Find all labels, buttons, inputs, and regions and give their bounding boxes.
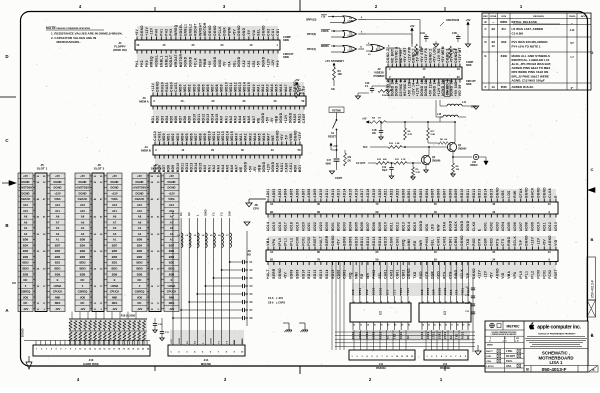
svg-text:RXD2: RXD2 [422,331,424,339]
svg-text:LDMA: LDMA [168,284,176,288]
svg-text:17: 17 [451,324,453,326]
svg-text:MEM B: MEM B [141,148,151,152]
svg-text:GND: GND [242,338,244,344]
svg-text:CAS0: CAS0 [153,131,157,141]
ground triangle right of J12 [475,351,481,355]
svg-text:SPARE: SPARE [447,85,450,95]
svg-text:IPL1: IPL1 [284,238,288,246]
svg-text:BD07: BD07 [366,222,370,231]
svg-text:VIDEO: VIDEO [470,164,478,167]
svg-text:-12V: -12V [137,307,143,311]
svg-text:AD13: AD13 [337,188,341,197]
svg-text:Y2: Y2 [220,212,224,216]
svg-text:BD03: BD03 [343,222,347,231]
svg-text:BD05: BD05 [354,222,358,231]
svg-text:CONT: CONT [335,177,343,180]
svg-text:DGND: DGND [184,56,188,67]
svg-text:15: 15 [439,324,441,326]
svg-text:A13: A13 [169,203,174,207]
svg-text:CB1: CB1 [276,28,280,35]
svg-text:CBACK: CBACK [78,197,88,201]
svg-text:DGND: DGND [460,235,464,246]
svg-text:BD8: BD8 [137,272,143,276]
svg-text:AD07: AD07 [301,188,305,197]
svg-text:DCD1: DCD1 [381,287,383,295]
svg-text:+12V: +12V [298,131,302,140]
svg-text:CTS: CTS [394,289,396,295]
svg-text:+5V: +5V [294,78,299,82]
svg-text:LISA: LISA [506,365,512,368]
svg-text:MD8: MD8 [167,165,171,173]
svg-text:A5: A5 [56,226,60,230]
svg-text:DGND: DGND [262,56,266,67]
svg-text:VIA: VIA [227,61,231,68]
svg-text:MA6: MA6 [279,84,283,92]
svg-text:+5VSTDBY: +5VSTDBY [19,186,33,190]
svg-text:NC: NC [138,301,142,305]
label CV OUT and resistor R12 680 [356,159,389,165]
svg-text:D: D [5,54,8,59]
svg-text:AGND: AGND [495,268,499,279]
svg-text:AD05: AD05 [507,222,511,231]
svg-text:DGND: DGND [293,81,297,92]
svg-text:PH0: PH0 [276,60,280,67]
svg-text:A9: A9 [113,215,117,219]
svg-text:RS232A: RS232A [376,366,386,370]
svg-text:TXD: TXD [413,271,417,279]
svg-text:J11: J11 [379,362,384,366]
svg-text:GN: GN [348,157,352,159]
svg-text:RD: RD [413,240,417,246]
svg-text:C8-9: C8-9 [268,302,274,305]
svg-text:DGND: DGND [331,235,335,246]
svg-text:BD3: BD3 [169,255,175,259]
svg-text:CB02: CB02 [401,269,405,278]
svg-text:5: 5 [56,349,57,351]
svg-text:ENBL2: ENBL2 [164,55,168,67]
svg-text:MOTOR: MOTOR [179,54,183,68]
svg-text:MD7: MD7 [194,133,198,141]
svg-text:A7: A7 [56,220,60,224]
svg-text:IPL2: IPL2 [290,238,294,246]
svg-text:CA02: CA02 [390,269,394,278]
svg-text:E: E [478,229,482,231]
boxed label SPARE below power connector [445,81,451,97]
svg-text:VMA: VMA [266,237,270,245]
svg-text:SEL: SEL [431,239,435,246]
svg-text:MA3: MA3 [265,84,269,92]
svg-text:A10: A10 [80,209,85,213]
svg-text:+5V: +5V [248,165,252,172]
svg-text:-12V: -12V [112,307,118,311]
svg-text:12: 12 [422,324,424,326]
svg-text:9: 9 [463,301,464,303]
svg-text:RS232B: RS232B [440,366,450,370]
svg-text:DTR2: DTR2 [360,331,362,339]
connector J2 VIDEO POWER [374,46,463,96]
svg-text:POWER: POWER [374,74,386,78]
svg-text:+5V: +5V [169,174,174,178]
svg-text:A9: A9 [56,215,60,219]
transistor Q2 2N3906 [421,146,441,165]
connector J11 RS232A [349,350,415,370]
svg-text:BD00: BD00 [401,188,405,197]
svg-text:BD5: BD5 [55,249,61,253]
svg-text:FC02: FC02 [307,237,311,246]
svg-text:VIDA: VIDA [111,197,117,201]
svg-text:CPUCK: CPUCK [110,290,120,294]
svg-text:MD1: MD1 [151,116,155,124]
svg-text:LDMA: LDMA [54,284,62,288]
svg-text:A10: A10 [23,209,28,213]
svg-text:8: 8 [457,301,458,303]
svg-text:846B: 846B [501,54,507,58]
svg-text:I/O8: I/O8 [23,295,29,299]
svg-text:+12V: +12V [266,163,270,172]
svg-text:MEM A: MEM A [139,99,149,103]
svg-text:RTS1: RTS1 [445,331,447,339]
svg-text:+12V: +12V [111,191,118,195]
svg-text:3.3K: 3.3K [453,52,458,54]
svg-text:DGND: DGND [262,161,266,172]
svg-text:SLOT 1: SLOT 1 [37,167,48,171]
svg-text:+5V: +5V [409,24,414,28]
drawing number row 050-4013-F [524,366,598,374]
svg-text:E: E [554,195,558,197]
svg-text:PH02: PH02 [372,270,376,279]
svg-text:DTR1: DTR1 [428,287,430,295]
svg-text:21: 21 [132,349,134,351]
svg-text:DCD: DCD [437,271,441,279]
svg-text:DGND: DGND [460,220,464,231]
svg-text:VPA: VPA [272,238,276,246]
svg-text:AD08: AD08 [525,222,529,231]
svg-text:L: L [195,214,199,216]
svg-text:ZONE: ZONE [490,16,497,18]
svg-text:IPL2: IPL2 [531,271,535,279]
svg-text:BD2: BD2 [137,249,143,253]
svg-text:7: 7 [388,301,389,303]
svg-text:CTS: CTS [501,238,505,245]
cap C1B and R5 right of J1 [449,18,471,58]
svg-text:RES: RES [112,301,118,305]
svg-text:A11: A11 [55,209,60,213]
svg-text:RXD1: RXD1 [462,331,464,339]
svg-text:BDI0: BDI0 [79,266,86,270]
svg-text:Y10: Y10 [321,16,326,19]
svg-text:-5V: -5V [247,29,251,35]
svg-text:CB1: CB1 [252,60,256,67]
svg-text:DTR2: DTR2 [428,331,430,339]
svg-text:BD8: BD8 [80,272,86,276]
svg-text:MD0: MD0 [294,165,298,173]
svg-text:2N3906: 2N3906 [432,159,441,162]
svg-text:BD4: BD4 [137,243,143,247]
svg-text:C: C [591,167,594,172]
connector J8 CPU [253,187,558,232]
svg-text:+5V: +5V [265,116,269,123]
ground triangle right of L11 [470,106,479,109]
svg-text:VBB: VBB [275,115,279,123]
svg-text:BD12: BD12 [472,188,476,197]
IC U3 serial driver [419,287,471,339]
svg-text:A6: A6 [138,220,142,224]
svg-text:18: 18 [118,349,120,351]
svg-text:-5V: -5V [223,61,227,67]
svg-text:S132: S132 [376,49,382,52]
svg-text:AD02: AD02 [489,222,493,231]
svg-text:B: B [591,237,594,242]
svg-text:13: 13 [94,349,96,351]
svg-text:FC00: FC00 [536,270,540,279]
svg-text:CAS0: CAS0 [285,163,289,173]
svg-text:NC: NC [81,278,85,282]
svg-text:R/W: R/W [513,191,517,198]
apple computer inc logo text [529,322,581,330]
svg-text:+5V: +5V [465,18,470,22]
svg-text:RSET: RSET [313,236,317,246]
svg-text:AD06: AD06 [513,222,517,231]
svg-text:AD10: AD10 [319,188,323,197]
svg-text:WREQ: WREQ [174,24,178,35]
svg-text:N.O: N.O [363,146,368,149]
svg-text:2: 2 [422,301,423,303]
svg-text:DTR1: DTR1 [360,287,362,295]
svg-text:DGND: DGND [278,268,282,279]
svg-text:AD12: AD12 [331,188,335,197]
svg-text:PWM: PWM [227,27,231,36]
svg-text:CA1: CA1 [271,28,275,35]
svg-text:+5V: +5V [257,60,261,67]
svg-text:MD3: MD3 [176,133,180,141]
svg-text:A12: A12 [80,203,85,207]
svg-text:MA7: MA7 [284,84,288,92]
svg-text:MD9: MD9 [220,84,224,92]
svg-text:PH2: PH2 [164,29,168,36]
svg-text:AD03: AD03 [495,222,499,231]
svg-text:PH3: PH3 [169,29,173,36]
svg-text:BD4: BD4 [80,243,86,247]
capacitor C17 6800 [326,159,340,170]
svg-text:8: 8 [70,349,71,351]
svg-text:AD07: AD07 [519,222,523,231]
svg-text:PH1: PH1 [159,29,163,36]
svg-text:+12V: +12V [266,58,270,67]
svg-text:RXD: RXD [472,238,476,246]
ground symbol 2 near mouse [299,323,308,332]
svg-text:6: 6 [445,301,446,303]
svg-text:RTS: RTS [442,271,446,278]
svg-text:B3: B3 [492,40,496,44]
svg-text:A1: A1 [113,238,117,242]
svg-text:NC: NC [24,278,28,282]
title text SCHEMATIC MOTHERBOARD LISA 1 [524,349,588,366]
svg-text:RSTSW: RSTSW [332,109,341,112]
tolerance table left part of title block [485,332,524,372]
svg-text:BD2: BD2 [23,249,29,253]
svg-text:2RPU(2): 2RPU(2) [306,18,317,22]
svg-text:MICROFARADS..: MICROFARADS.. [57,40,82,44]
svg-text:AD09: AD09 [313,188,317,197]
svg-text:BD14: BD14 [325,269,329,278]
svg-text:VID 36: VID 36 [458,84,462,96]
svg-text:TIP: TIP [519,240,523,246]
svg-text:2: 2 [353,301,354,303]
svg-text:± .25: ± .25 [515,340,519,342]
svg-text:FC00: FC00 [295,237,299,246]
svg-text:AD16: AD16 [354,188,358,197]
svg-text:CV OUT: CV OUT [356,162,366,165]
svg-text:15: 15 [103,349,105,351]
ground symbol 1 near mouse [283,323,292,332]
svg-text:A13: A13 [55,203,60,207]
svg-text:MD1: MD1 [183,84,187,92]
svg-text:BD3: BD3 [55,255,61,259]
svg-text:BD05: BD05 [431,188,435,197]
svg-text:BD9: BD9 [112,272,118,276]
svg-text:Y1: Y1 [212,212,216,216]
svg-text:CA1: CA1 [247,60,251,67]
svg-text:ENBL1: ENBL1 [159,55,163,67]
svg-text:A1: A1 [270,250,274,254]
svg-text:VID: VID [554,239,558,246]
title block [485,321,588,372]
bus wires between serial ICs and RS232 connectors [335,330,475,350]
svg-text:DGND: DGND [244,161,248,172]
svg-text:5: 5 [374,301,375,303]
svg-text:16: 16 [380,324,382,326]
svg-text:≠ CAPS: ≠ CAPS [276,302,285,305]
svg-text:FC01: FC01 [301,237,305,246]
svg-text:BD6: BD6 [80,238,86,242]
svg-text:WRDAT: WRDAT [174,54,178,67]
svg-text:BD7: BD7 [169,243,175,247]
svg-text:8/99: 8/99 [501,40,507,44]
svg-text:RAS0: RAS0 [160,82,164,92]
svg-text:4A: 4A [492,85,495,89]
svg-text:AD23: AD23 [395,188,399,197]
svg-text:MA5: MA5 [226,165,230,173]
label ONC B7238 [440,19,460,26]
svg-text:GND: GND [179,338,181,344]
IC U2 serial driver [350,287,411,339]
svg-text:2.7K: 2.7K [416,172,421,174]
svg-text:BDI1: BDI1 [168,266,175,270]
connector J14 MOUSE [168,338,245,366]
svg-text:MD8: MD8 [183,116,187,124]
svg-text:A8: A8 [81,215,85,219]
svg-text:GND: GND [242,27,246,35]
svg-text:MD5: MD5 [201,84,205,92]
svg-text:IPL1: IPL1 [525,271,529,279]
svg-text:NMI: NMI [112,295,117,299]
svg-text:20: 20 [468,324,470,326]
svg-text:DGND: DGND [419,220,423,231]
svg-text:A4: A4 [81,226,85,230]
svg-text:NMI: NMI [354,272,358,279]
svg-text:AD10: AD10 [536,222,540,231]
svg-text:DGND: DGND [271,161,275,172]
svg-text:WE: WE [288,86,292,92]
svg-text:MA6: MA6 [262,133,266,141]
svg-text:AD21: AD21 [384,188,388,197]
svg-text:BD13: BD13 [401,222,405,231]
svg-text:+5V: +5V [362,118,367,121]
svg-text:6800: 6800 [326,163,332,166]
svg-text:19: 19 [462,324,464,326]
svg-text:+5V: +5V [171,210,175,216]
svg-text:MD9: MD9 [203,133,207,141]
svg-text:MD6: MD6 [189,133,193,141]
svg-text:BD0: BD0 [80,255,86,259]
svg-text:SIDE: SIDE [283,38,289,42]
svg-text:LS32: LS32 [348,50,354,53]
svg-text:-12V: -12V [150,27,154,36]
svg-text:DGND: DGND [466,220,470,231]
svg-text:A2: A2 [138,232,142,236]
svg-text:-12V: -12V [55,307,61,311]
svg-text:MD13: MD13 [238,82,242,92]
svg-text:CA2: CA2 [266,28,270,35]
svg-text:MA5: MA5 [275,84,279,92]
svg-text:-12V: -12V [169,307,175,311]
svg-text:HDSEL: HDSEL [179,23,183,35]
svg-text:3: 3 [428,301,429,303]
svg-text:CTS: CTS [448,271,452,278]
svg-text:BD00: BD00 [325,222,329,231]
svg-text:ENBL1: ENBL1 [184,24,188,36]
resistor R6 68 to Q1 base [428,139,448,144]
svg-text:BD09: BD09 [454,188,458,197]
svg-text:+12V: +12V [284,114,288,123]
resistor network RN1-RN4 330 ohm block [69,315,147,345]
svg-text:BD08: BD08 [343,236,347,245]
svg-text:LDS: LDS [507,190,511,197]
svg-text:W8R4: W8R4 [500,20,508,24]
svg-text:DGND: DGND [22,191,30,195]
svg-text:L.REV: L.REV [486,356,492,358]
svg-text:MA0: MA0 [235,133,239,141]
svg-text:VMA: VMA [507,270,511,278]
svg-text:MA6: MA6 [230,165,234,173]
connector J3 MEM A [139,81,306,124]
svg-text:CA01: CA01 [437,236,441,245]
svg-text:AD15: AD15 [348,188,352,197]
svg-text:BD03: BD03 [419,188,423,197]
wire from gate U1a output to power connector area [366,20,420,68]
svg-text:WE: WE [256,118,260,124]
svg-text:VPA: VPA [513,271,517,279]
svg-text:MD10: MD10 [176,163,180,173]
svg-text:RDDAT: RDDAT [193,23,197,36]
svg-text:IRQ: IRQ [401,239,405,246]
svg-text:A6: A6 [81,220,85,224]
svg-text:1: 1 [36,349,37,351]
inductor L11 [440,101,477,109]
svg-text:CPUCK: CPUCK [167,290,177,294]
svg-text:PWM: PWM [203,59,207,68]
svg-text:I/O8: I/O8 [80,295,86,299]
OR gate U1a LS32 [343,16,366,23]
svg-text:L11: L11 [462,101,467,104]
svg-text:2: 2 [41,349,42,351]
connector J4 MEM B [141,130,302,173]
svg-text:BD11: BD11 [307,270,311,279]
svg-text:MD8: MD8 [215,84,219,92]
svg-text:MD1: MD1 [167,133,171,141]
svg-text:OK: OK [348,161,352,163]
svg-text:Y2: Y2 [226,340,228,344]
